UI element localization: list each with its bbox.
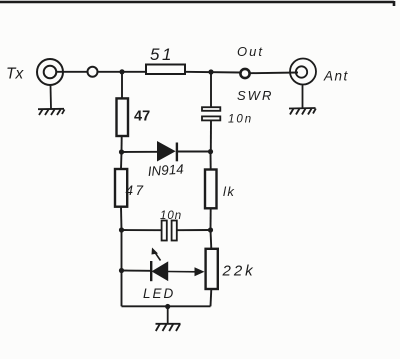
wire node C down to R2 xyxy=(120,152,123,169)
svg-text:10n: 10n xyxy=(228,114,253,126)
svg-text:Out: Out xyxy=(237,44,264,59)
junction node A xyxy=(119,69,124,74)
wire R2 to node D xyxy=(120,207,123,230)
wire node F down to R3 xyxy=(210,152,212,170)
svg-text:51: 51 xyxy=(150,45,174,64)
wiper arrow to potentiometer xyxy=(168,267,205,276)
wire node D down to node E xyxy=(121,230,123,271)
junction node B xyxy=(208,69,213,74)
wire R3 to node G xyxy=(210,208,212,230)
connector J1 Tx coax xyxy=(37,59,63,85)
wire node D to capacitor C2 xyxy=(122,229,162,231)
ground at Ant xyxy=(289,85,316,115)
resistor 51 xyxy=(146,65,185,75)
junction node F xyxy=(208,149,213,154)
svg-text:SWR: SWR xyxy=(237,88,273,103)
junction node C xyxy=(119,149,124,154)
junction node G xyxy=(208,227,213,232)
emission arrow xyxy=(155,253,161,261)
svg-text:47: 47 xyxy=(126,183,146,198)
wire node E to LED xyxy=(122,270,152,272)
resistor R2 47 xyxy=(115,169,127,207)
capacitor C2 10n xyxy=(162,221,177,241)
wire diode to node F xyxy=(177,151,211,153)
wire open node to junction A xyxy=(98,71,147,73)
open circle node xyxy=(88,67,98,77)
svg-text:lk: lk xyxy=(223,184,235,199)
svg-text:47: 47 xyxy=(134,109,150,125)
wire resistor 51 to junction B xyxy=(185,71,240,74)
svg-text:Tx: Tx xyxy=(6,66,24,83)
bottom rail wire xyxy=(122,305,211,307)
svg-text:LED: LED xyxy=(143,286,175,301)
junction node D xyxy=(119,227,124,232)
svg-text:22k: 22k xyxy=(222,263,256,280)
wire junction A down to R1 xyxy=(121,72,123,99)
connector J2 Ant coax xyxy=(290,59,316,85)
wire node E down to bottom rail xyxy=(121,271,123,307)
wire junction B down to C1 xyxy=(210,72,212,107)
wire R4 to bottom rail xyxy=(210,289,213,306)
junction node H xyxy=(165,304,170,309)
wire C1 to node F xyxy=(210,120,212,151)
potentiometer R4 22k xyxy=(206,249,218,289)
wire capacitor C2 to node G xyxy=(177,229,211,231)
junction node E xyxy=(119,268,124,273)
wire node G down to R4 xyxy=(210,230,213,249)
LED D2 xyxy=(151,248,168,282)
resistor R1 47 xyxy=(117,98,129,136)
ground at bottom xyxy=(156,307,181,332)
svg-text:Ant: Ant xyxy=(323,69,349,84)
wire Tx to open node xyxy=(56,71,87,73)
wire node C to diode D1 xyxy=(122,151,158,153)
capacitor C1 10n xyxy=(202,107,220,120)
diode D1 1N914 xyxy=(158,142,177,161)
svg-text:IN914: IN914 xyxy=(147,162,184,179)
terminal SWR xyxy=(240,69,249,78)
ground at Tx xyxy=(38,85,65,115)
wire R1 to node C xyxy=(121,136,123,152)
resistor R3 1k xyxy=(205,170,217,209)
wire SWR terminal to Ant xyxy=(250,72,298,75)
